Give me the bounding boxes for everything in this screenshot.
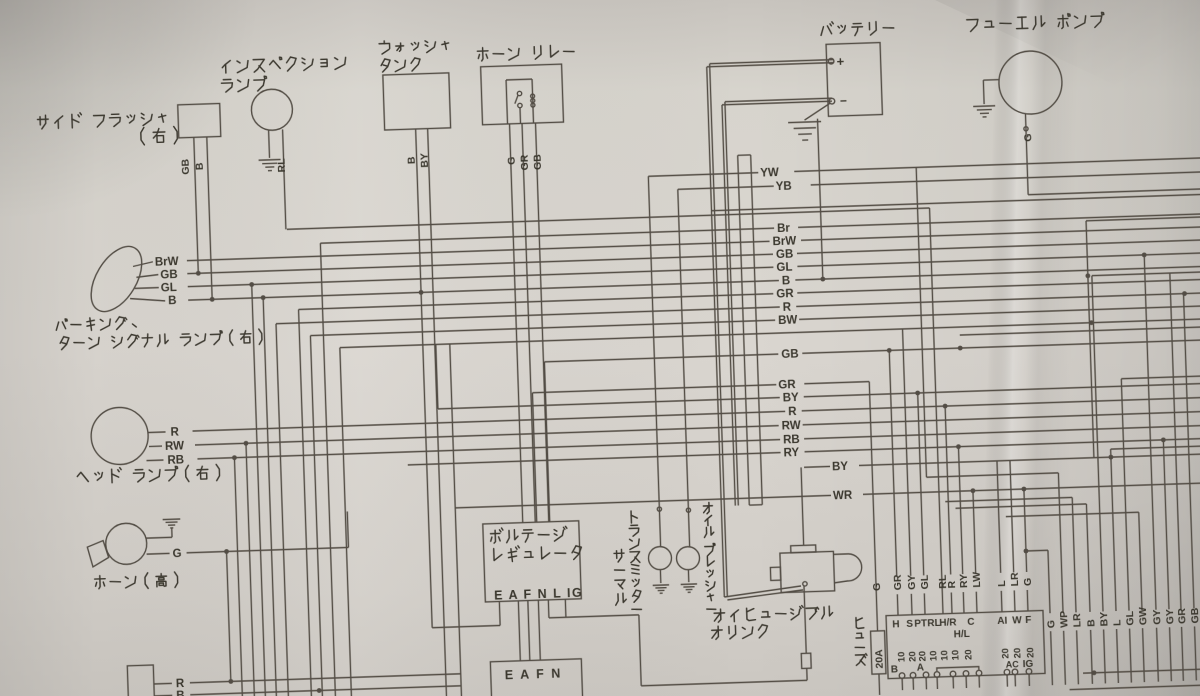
wire fusible link bottom — [804, 586, 806, 653]
wire regulator A — [518, 601, 520, 661]
svg-text:10: 10 — [896, 651, 907, 662]
wire fuse-box feeder LR — [1010, 460, 1014, 572]
wire GR2 bus — [532, 385, 776, 393]
thermal transmitter sender — [648, 546, 672, 570]
svg-text:WP: WP — [1058, 611, 1071, 628]
svg-text:GB: GB — [160, 269, 178, 282]
wire GR-left drop — [299, 309, 312, 696]
horn relay coil — [531, 94, 535, 98]
wire right feeder y513 — [945, 497, 1072, 501]
wire G-horn drop — [227, 551, 231, 681]
wire right feeder y520 — [956, 504, 1087, 508]
svg-text:20: 20 — [963, 649, 974, 660]
svg-text:RW: RW — [782, 420, 801, 433]
svg-text:G: G — [172, 548, 181, 560]
wire bottom-right bus B — [1070, 685, 1200, 690]
ground inspection lamp — [259, 158, 281, 161]
wire RL drop to fuse box — [930, 208, 943, 614]
wire horn ground lead — [146, 536, 172, 539]
wire ellipse stub BrW — [133, 262, 153, 267]
svg-text:BW: BW — [778, 314, 798, 327]
svg-text:R: R — [176, 678, 185, 690]
svg-text:BY: BY — [418, 153, 430, 168]
label parking turn signal — [56, 322, 59, 330]
label thermal transmitter vertical — [614, 552, 624, 554]
svg-text:−: − — [840, 94, 847, 108]
label fusible link — [714, 612, 724, 614]
wire BrW bus — [187, 241, 770, 260]
inspection lamp — [251, 89, 293, 131]
svg-text:GR: GR — [519, 154, 532, 171]
wire unlabeled right — [960, 327, 1200, 335]
svg-text:GR: GR — [776, 288, 794, 301]
wire RL from inspection lamp — [287, 208, 930, 229]
wire right column G — [1048, 550, 1050, 613]
svg-text:10: 10 — [950, 650, 961, 661]
wire BW-left drop — [310, 336, 322, 696]
fuse box terminal stubs — [901, 678, 903, 690]
fusible link body — [780, 551, 835, 592]
fuse box terminal bracket — [937, 667, 979, 671]
wire washer B to regulator E — [432, 625, 500, 627]
label voltage regulator — [494, 530, 496, 543]
wire regulator L/IG run — [549, 615, 639, 618]
wire fuse-box feeder RY — [958, 447, 962, 574]
svg-text:GL: GL — [919, 574, 931, 590]
svg-text:B: B — [176, 690, 185, 696]
label horn relay — [481, 48, 483, 61]
svg-text:B: B — [168, 295, 177, 307]
svg-text:B: B — [1085, 619, 1097, 627]
fusible link top tab — [791, 545, 816, 553]
label inspection lamp — [222, 61, 230, 68]
oil pressure sender — [676, 546, 700, 570]
fuse box terminals — [899, 673, 905, 679]
svg-text:20: 20 — [1000, 648, 1011, 659]
wire BY2 drop x436 — [436, 344, 438, 408]
ground thermal sender — [659, 570, 661, 583]
side flasher (right) box — [178, 103, 221, 137]
svg-text:WR: WR — [833, 490, 853, 503]
svg-text:GL: GL — [1124, 610, 1136, 626]
svg-text:20: 20 — [1012, 648, 1023, 659]
wire regulator F — [528, 601, 530, 661]
wire right feeder y466 — [1111, 446, 1200, 449]
svg-text:E A F N L IG: E A F N L IG — [494, 586, 583, 603]
ground fuel pump — [973, 105, 995, 108]
svg-text:20: 20 — [917, 651, 928, 662]
wire right feeder y530 — [1006, 512, 1139, 516]
svg-text:W: W — [1012, 615, 1022, 626]
battery box — [826, 43, 882, 117]
svg-text:PT: PT — [914, 618, 927, 629]
svg-text:R: R — [170, 426, 179, 438]
fusible link left tab — [770, 567, 780, 580]
svg-text:B: B — [406, 156, 418, 164]
svg-text:B: B — [782, 275, 791, 287]
svg-text:AC: AC — [1006, 659, 1020, 669]
fusible link terminal — [803, 582, 808, 587]
wire YB drop to oil pressure sender — [678, 189, 690, 547]
label fuel pump — [967, 19, 979, 31]
wire YW drop to thermal sender — [648, 176, 660, 547]
wire WR-left riser x450 — [450, 344, 462, 696]
svg-text:H: H — [892, 619, 900, 630]
svg-text:RL: RL — [937, 574, 949, 589]
wire fuel pump G — [1025, 114, 1028, 194]
paper fold crease — [980, 0, 1080, 696]
svg-text:GR: GR — [778, 379, 796, 392]
svg-text:E A F N: E A F N — [505, 666, 563, 682]
svg-text:10: 10 — [928, 650, 939, 661]
svg-text:AI: AI — [997, 616, 1008, 627]
wire B bus — [188, 281, 779, 301]
wire GR2 left riser x531 — [532, 393, 536, 522]
wire GL drop — [252, 285, 266, 696]
wire bottom run to fusible link — [641, 680, 807, 686]
wire side flasher B — [207, 137, 212, 299]
wire Br bus — [320, 228, 774, 243]
svg-text:+: + — [836, 54, 844, 69]
svg-text:C: C — [967, 617, 975, 628]
wire WR bus — [455, 495, 831, 507]
wire battery positive leads — [710, 60, 834, 64]
svg-text:H/R: H/R — [939, 617, 957, 629]
ground battery — [788, 122, 821, 123]
wire washer BY — [428, 129, 447, 696]
svg-text:LW: LW — [971, 572, 984, 588]
svg-text:BY: BY — [1098, 612, 1110, 627]
wire right column GY — [1144, 255, 1156, 610]
svg-text:RY: RY — [783, 447, 799, 460]
svg-text:B: B — [891, 664, 899, 675]
svg-text:G: G — [1045, 620, 1057, 629]
wire YW — [648, 173, 758, 177]
wire bottom R — [154, 682, 172, 685]
wire fuse-box feeder GL — [918, 393, 924, 575]
wire R bus — [276, 307, 780, 324]
wire right feeder y488 — [926, 473, 1058, 477]
wire RB drop — [234, 458, 242, 696]
horn relay contacts — [506, 78, 532, 81]
svg-text:GR: GR — [892, 574, 905, 591]
svg-text:R: R — [783, 302, 792, 314]
wire right feeder y292 — [1092, 272, 1200, 276]
svg-text:GB: GB — [781, 348, 799, 361]
wire inspection lamp RL — [283, 129, 286, 229]
wire GR bus — [299, 294, 774, 310]
inline connector — [801, 653, 811, 668]
wire step down x630 — [639, 615, 641, 686]
svg-text:Br: Br — [777, 223, 791, 235]
svg-text:F: F — [1025, 615, 1031, 626]
wire below connector — [806, 668, 808, 680]
wire fuse-box feeder GR — [889, 350, 896, 576]
wire ellipse stub B — [130, 297, 165, 302]
fuel pump — [998, 50, 1063, 115]
horn mouth — [87, 540, 109, 567]
svg-text:LR: LR — [1009, 572, 1021, 587]
label fuse vertical — [856, 618, 862, 621]
svg-text:L: L — [996, 580, 1008, 587]
wire right feeder y237 — [1086, 217, 1200, 221]
svg-text:GB: GB — [179, 158, 192, 175]
wire right column GB — [1184, 294, 1194, 609]
wire right feeder y396 — [1121, 376, 1200, 379]
svg-text:H/L: H/L — [954, 629, 970, 641]
wire fuel pump ground lead — [983, 79, 998, 82]
svg-text:BrW: BrW — [155, 256, 179, 269]
wire right column GR — [1170, 273, 1181, 609]
wire battery frame ground drop — [818, 119, 823, 279]
wire headlamp stub RW — [149, 445, 162, 447]
svg-text:GL: GL — [161, 282, 177, 295]
wire washer B — [416, 129, 433, 628]
parking turn signal lamp ellipse — [81, 238, 152, 320]
svg-text:BrW: BrW — [772, 235, 796, 248]
main fuse connector box — [886, 610, 1045, 678]
wire unlabeled upper-mid — [340, 319, 1200, 348]
wire bottom-right bus A — [1083, 669, 1200, 674]
svg-text:GY: GY — [1151, 609, 1163, 625]
svg-text:RL: RL — [276, 158, 288, 173]
svg-text:RB: RB — [783, 434, 800, 447]
wire right column BY — [1092, 276, 1103, 612]
wire fuse-box feeder GY — [903, 329, 911, 576]
wire battery cable diagonals — [724, 586, 801, 597]
battery positive terminal — [828, 58, 834, 64]
svg-text:10: 10 — [939, 650, 950, 661]
wire GB2 left riser x544 — [544, 362, 549, 522]
wire horn G riser x342 — [347, 511, 348, 547]
wire battery negative leads — [725, 98, 832, 102]
svg-text:YB: YB — [776, 181, 792, 194]
wire right column L — [1111, 449, 1116, 611]
label headlamp — [77, 472, 88, 482]
svg-text:G: G — [506, 156, 518, 165]
wire GB bus — [187, 254, 773, 273]
wire RW drop — [246, 443, 255, 696]
flasher relay box bottom left — [127, 665, 155, 696]
svg-text:B: B — [194, 162, 206, 170]
horn (high) — [105, 523, 147, 565]
ground oil pressure sender — [687, 570, 689, 582]
svg-text:RY: RY — [958, 574, 970, 589]
wire battery negative pair — [725, 102, 738, 506]
wire fuse-box feeder G — [1024, 489, 1027, 572]
wire fusible link top — [801, 467, 804, 545]
svg-text:GW: GW — [1137, 607, 1150, 626]
label side flasher — [38, 118, 49, 120]
wire RY bus — [408, 453, 781, 465]
wire B drop — [263, 298, 277, 696]
wire regulator N — [538, 600, 540, 660]
svg-text:GY: GY — [906, 574, 918, 590]
svg-text:GB: GB — [1189, 607, 1200, 624]
wire headlamp stub R — [148, 431, 166, 434]
svg-text:G: G — [1022, 578, 1034, 587]
wire G jog to right column — [1023, 549, 1028, 554]
washer tank box — [383, 73, 451, 130]
wire R-left drop — [276, 324, 289, 696]
label oil pressure vertical — [703, 505, 712, 507]
wire R bus — [193, 411, 786, 431]
wire BW bus — [310, 320, 775, 335]
svg-text:GB: GB — [532, 154, 545, 171]
regulator connector box EAFN — [490, 659, 582, 696]
battery negative terminal — [829, 98, 835, 104]
wire right column B — [1086, 504, 1090, 612]
svg-text:G: G — [1022, 133, 1034, 142]
wire ellipse stub GL — [135, 287, 159, 290]
wire regulator E — [498, 601, 501, 625]
wire RB bus — [197, 440, 780, 459]
wire relay GR — [522, 123, 535, 522]
wire battery ground diagonal — [804, 103, 831, 120]
svg-text:S: S — [906, 619, 913, 630]
svg-text:BY: BY — [832, 461, 849, 474]
wire right column GY — [1163, 440, 1169, 609]
wire right mid drop x922 — [916, 167, 926, 477]
label battery — [821, 27, 824, 36]
wire relay GB — [536, 123, 549, 522]
svg-text:RB: RB — [167, 454, 184, 467]
wire horn G — [147, 552, 170, 555]
wire right column GW — [1139, 512, 1142, 610]
fusible link flag — [833, 553, 862, 582]
svg-text:BY: BY — [783, 392, 800, 405]
wire fuse-box feeder LW — [973, 491, 976, 574]
svg-text:RW: RW — [165, 440, 184, 453]
wire regulator IG — [564, 599, 567, 617]
wire battery positive branch — [712, 194, 1200, 210]
wire ellipse stub GB — [136, 275, 158, 278]
wire right column WP — [1058, 473, 1063, 613]
svg-text:G: G — [871, 583, 883, 592]
wire fuse bottom — [878, 674, 881, 695]
svg-text:A: A — [917, 662, 925, 673]
svg-text:R: R — [788, 406, 797, 418]
wire harness pair with caps — [738, 155, 750, 505]
svg-text:GY: GY — [1164, 609, 1176, 625]
svg-text:LR: LR — [1071, 613, 1083, 628]
svg-text:GB: GB — [776, 249, 794, 262]
wire YB — [678, 186, 774, 189]
ground horn — [163, 518, 181, 521]
wire Br-left drop — [320, 243, 335, 696]
label washer tank — [383, 41, 385, 44]
label horn high — [98, 576, 100, 589]
wire right column GL — [1121, 379, 1129, 611]
svg-text:GL: GL — [776, 262, 792, 275]
wire side flasher GB — [194, 137, 199, 273]
wire mid column x1090 — [1086, 221, 1094, 458]
wire BY bus — [438, 398, 780, 409]
voltage regulator box — [483, 521, 582, 602]
wire battery positive pair — [710, 64, 728, 597]
wire RW bus — [195, 426, 779, 445]
wire fuse-box feeder R — [945, 406, 951, 574]
svg-text:YW: YW — [760, 167, 779, 180]
wire mid drop x340 — [340, 348, 352, 696]
wire GB bus — [544, 354, 778, 362]
svg-text:GR: GR — [1176, 607, 1189, 624]
headlamp (right) — [90, 407, 149, 466]
svg-text:20A: 20A — [873, 649, 886, 669]
wire fuse feed drop — [869, 382, 877, 631]
fuse 20A — [871, 631, 886, 674]
svg-text:20: 20 — [1025, 647, 1036, 658]
horn relay box — [481, 64, 564, 125]
wire relay G — [510, 124, 523, 523]
wire BY to fusible link — [804, 465, 830, 468]
svg-text:L: L — [1111, 619, 1123, 626]
wire fuel pump G feed — [1028, 189, 1200, 195]
wire regulator L — [547, 600, 550, 618]
wire GL bus — [188, 267, 774, 286]
wire headlamp stub RB — [146, 459, 163, 462]
wire right column LR — [1072, 497, 1076, 612]
wire fuse-box feeder L — [997, 461, 1001, 573]
wire inspection lamp ground lead — [268, 130, 271, 158]
wire bottom B — [154, 694, 172, 696]
